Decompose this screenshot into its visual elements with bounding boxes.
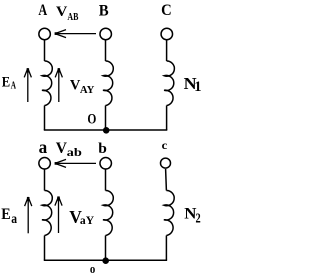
svg-text:ab: ab [67, 145, 83, 159]
svg-text:o: o [90, 262, 95, 276]
svg-text:a: a [39, 137, 48, 157]
svg-text:O: O [87, 111, 96, 127]
svg-text:aY: aY [80, 213, 95, 227]
svg-text:AY: AY [80, 85, 95, 96]
svg-text:V: V [56, 4, 67, 20]
svg-text:E: E [2, 75, 10, 91]
svg-text:E: E [1, 206, 10, 223]
svg-text:B: B [99, 2, 109, 19]
svg-text:2: 2 [196, 212, 201, 227]
svg-text:a: a [11, 212, 17, 227]
svg-text:C: C [161, 2, 172, 19]
svg-text:1: 1 [194, 79, 201, 95]
svg-text:AB: AB [67, 12, 78, 23]
svg-text:c: c [162, 140, 168, 152]
svg-text:A: A [38, 2, 47, 19]
svg-text:A: A [11, 81, 17, 92]
svg-text:b: b [98, 141, 107, 157]
